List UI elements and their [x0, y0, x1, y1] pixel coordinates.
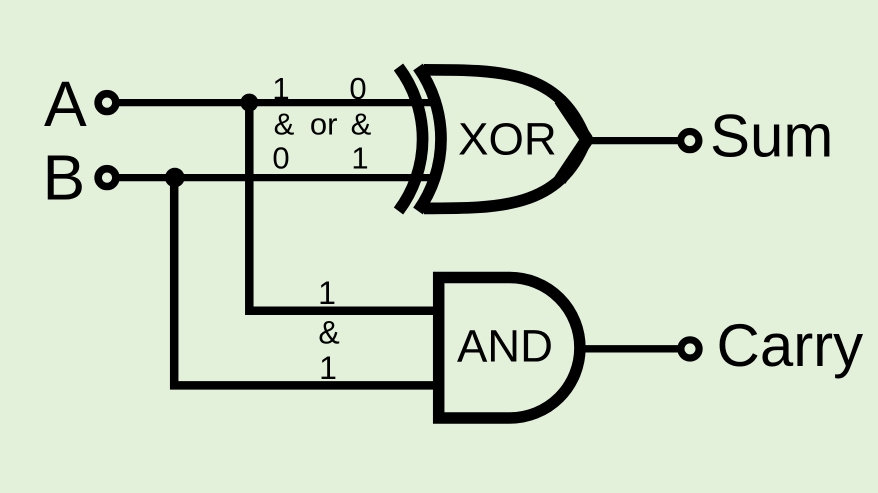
- svg-text:1: 1: [318, 275, 336, 311]
- svg-text:B: B: [43, 141, 86, 213]
- svg-text:Carry: Carry: [717, 312, 864, 379]
- svg-text:AND: AND: [457, 321, 553, 372]
- svg-text:1: 1: [272, 71, 289, 106]
- svg-text:A: A: [44, 68, 87, 140]
- svg-text:&: &: [318, 315, 339, 351]
- svg-text:XOR: XOR: [458, 114, 557, 165]
- svg-text:0: 0: [272, 140, 289, 175]
- svg-text:or: or: [310, 107, 338, 142]
- svg-text:1: 1: [351, 140, 368, 175]
- svg-text:&: &: [274, 107, 295, 142]
- svg-text:Sum: Sum: [710, 103, 833, 170]
- svg-text:&: &: [351, 107, 372, 142]
- svg-text:0: 0: [349, 71, 366, 106]
- svg-text:1: 1: [319, 350, 337, 386]
